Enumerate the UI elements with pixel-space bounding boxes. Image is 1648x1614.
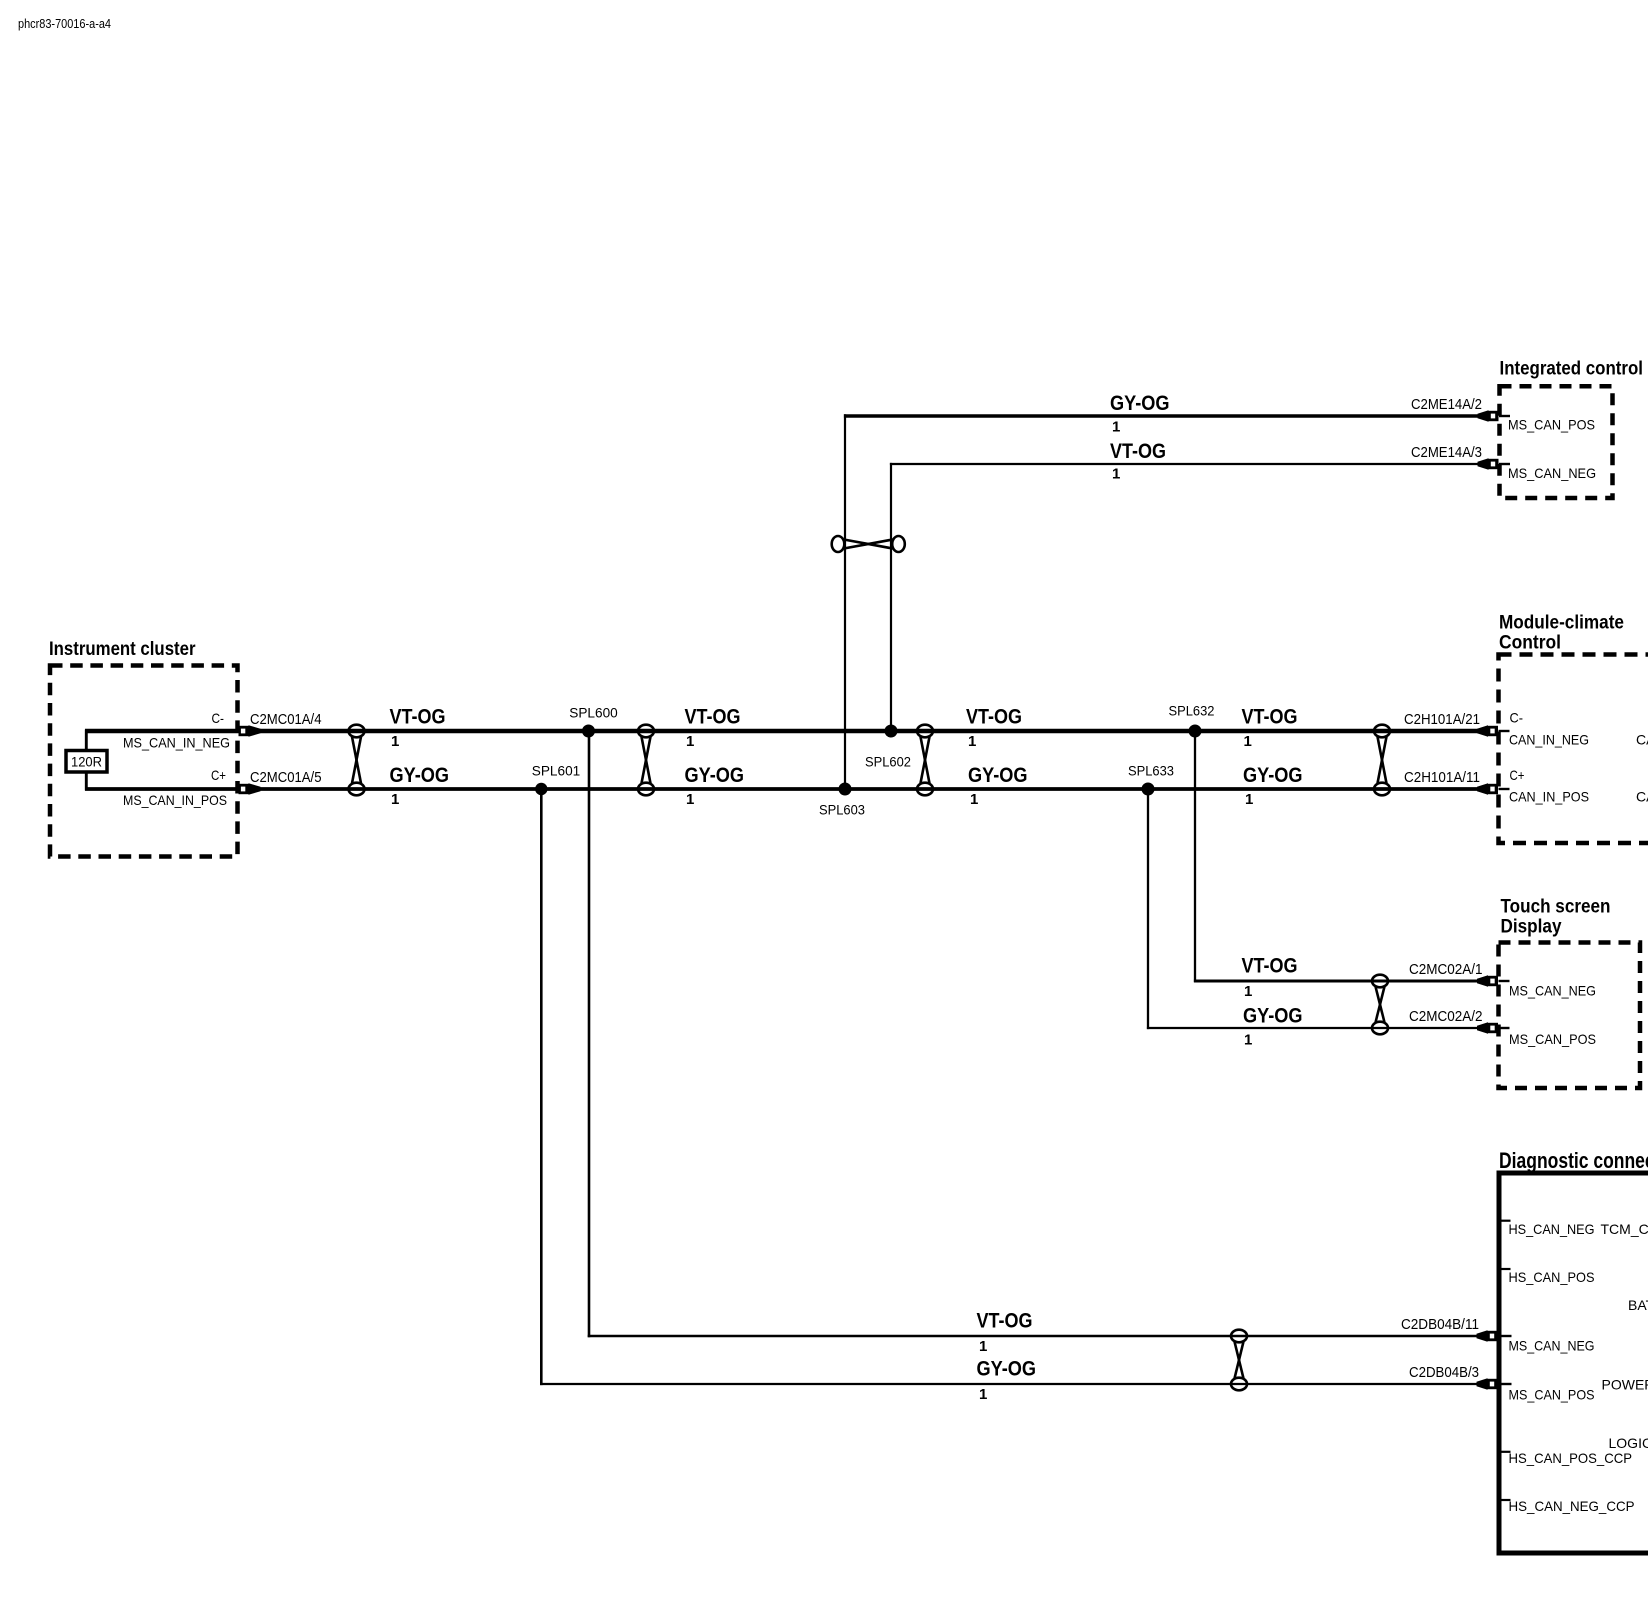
wire GY-OG vertical from SPL633 down to touch screen [1147, 789, 1149, 1029]
connector pin C2MC01A/4 [239, 725, 261, 737]
pin stub inside touch screen (MS_CAN_NEG) [1499, 980, 1510, 982]
twisted pair symbol at x356 [349, 725, 365, 796]
svg-text:MS_CAN_NEG: MS_CAN_NEG [1508, 465, 1596, 481]
component: Diagnostic connector solid box [1499, 1173, 1648, 1553]
twisted pair symbol at x1380 (touch screen pair) [1372, 975, 1388, 1035]
svg-text:1: 1 [1112, 466, 1120, 483]
svg-text:HS_CAN_POS_CCP: HS_CAN_POS_CCP [1509, 1450, 1633, 1466]
pin stub inside diagnostic connector (MS_CAN_NEG) [1502, 1335, 1512, 1337]
svg-text:MS_CAN_POS: MS_CAN_POS [1509, 1031, 1596, 1047]
pin tick HS_CAN_POS (diagnostic) [1502, 1268, 1511, 1270]
svg-text:SPL603: SPL603 [819, 802, 865, 818]
wire VT-OG vertical from SPL600 down to diagnostic connector [588, 731, 591, 1337]
svg-text:MS_CAN_IN_POS: MS_CAN_IN_POS [123, 792, 227, 808]
svg-text:C2H101A/11: C2H101A/11 [1404, 769, 1480, 786]
svg-text:GY-OG: GY-OG [390, 763, 450, 787]
wire VT-OG vertical branch from SPL602 up [890, 463, 892, 731]
svg-text:BATT: BATT [1628, 1297, 1648, 1313]
pin stub inside module-climate (C-) [1499, 730, 1510, 732]
svg-text:CA: CA [1636, 732, 1648, 748]
svg-text:C+: C+ [211, 767, 226, 783]
svg-text:MS_CAN_POS: MS_CAN_POS [1508, 417, 1595, 433]
pin stub inside diagnostic connector (MS_CAN_POS) [1502, 1383, 1512, 1385]
svg-text:Instrument cluster: Instrument cluster [49, 639, 196, 660]
svg-text:HS_CAN_POS: HS_CAN_POS [1509, 1269, 1595, 1285]
svg-text:GY-OG: GY-OG [1243, 1004, 1303, 1028]
svg-text:1: 1 [1244, 1032, 1252, 1049]
connector pin C2ME14A/2 [1478, 410, 1499, 422]
svg-text:GY-OG: GY-OG [1110, 391, 1170, 415]
svg-text:MS_CAN_NEG: MS_CAN_NEG [1509, 983, 1596, 999]
svg-text:1: 1 [968, 733, 976, 750]
splice SPL603 [839, 783, 852, 796]
svg-text:HS_CAN_NEG: HS_CAN_NEG [1509, 1221, 1595, 1237]
svg-text:C-: C- [1510, 710, 1524, 726]
svg-text:GY-OG: GY-OG [1243, 763, 1303, 787]
svg-text:C2DB04B/3: C2DB04B/3 [1409, 1364, 1479, 1381]
svg-text:Touch screen: Touch screen [1501, 897, 1611, 918]
twisted pair symbol at x1239 (diagnostic pair) [1231, 1330, 1247, 1391]
twisted pair symbol (horizontal) on branch pair [832, 536, 905, 552]
pin stub inside module-climate (C+) [1499, 788, 1510, 790]
svg-text:VT-OG: VT-OG [1110, 439, 1166, 463]
svg-text:GY-OG: GY-OG [977, 1357, 1037, 1381]
svg-text:1: 1 [686, 733, 694, 750]
svg-text:TCM_CA: TCM_CA [1601, 1221, 1648, 1237]
twisted pair symbol at x925 [917, 725, 933, 796]
connector pin C2DB04B/11 [1477, 1330, 1498, 1342]
wire GY-OG main bus (bottom) [85, 787, 1478, 791]
svg-text:GY-OG: GY-OG [968, 763, 1028, 787]
connector pin C2DB04B/3 [1477, 1378, 1498, 1390]
splice SPL632 [1189, 725, 1202, 738]
svg-text:C2MC02A/1: C2MC02A/1 [1409, 961, 1483, 978]
svg-text:1: 1 [391, 791, 399, 808]
svg-text:VT-OG: VT-OG [685, 705, 741, 729]
svg-text:1: 1 [1112, 419, 1120, 436]
wire VT-OG vertical from SPL632 down to touch screen [1194, 731, 1196, 982]
wire VT-OG horizontal to touch screen [1194, 980, 1478, 983]
pin stub inside touch screen (MS_CAN_POS) [1499, 1027, 1510, 1029]
svg-text:VT-OG: VT-OG [977, 1309, 1033, 1333]
svg-text:MS_CAN_IN_NEG: MS_CAN_IN_NEG [123, 735, 230, 751]
wire GY-OG vertical branch from SPL603 up [844, 414, 846, 789]
pin stub inside integrated control (MS_CAN_NEG) [1499, 463, 1510, 465]
svg-text:SPL632: SPL632 [1169, 703, 1215, 719]
svg-text:Module-climate: Module-climate [1499, 613, 1624, 634]
svg-text:SPL633: SPL633 [1128, 763, 1174, 779]
twisted pair symbol at x1382 [1374, 725, 1390, 796]
svg-text:1: 1 [391, 733, 399, 750]
wire jumper from 120R to MS_CAN_IN_NEG [85, 730, 88, 751]
splice SPL601 [535, 783, 547, 795]
svg-text:Integrated control: Integrated control [1500, 359, 1644, 380]
svg-text:C-: C- [212, 710, 225, 726]
component: Instrument cluster dashed box [50, 666, 238, 857]
svg-text:C2MC02A/2: C2MC02A/2 [1409, 1008, 1483, 1025]
svg-text:1: 1 [970, 791, 978, 808]
svg-text:Control: Control [1499, 633, 1561, 654]
splice SPL600 [582, 725, 595, 738]
wire VT-OG horizontal to Integrated control [890, 463, 1478, 465]
wire GY-OG horizontal to Integrated control [844, 414, 1478, 418]
svg-text:1: 1 [1244, 983, 1252, 1000]
svg-text:SPL602: SPL602 [865, 754, 911, 770]
svg-text:1: 1 [979, 1338, 987, 1355]
twisted pair symbol at x646 [638, 725, 654, 796]
pin tick HS_CAN_NEG_CCP (diagnostic) [1502, 1499, 1511, 1501]
svg-text:VT-OG: VT-OG [966, 705, 1022, 729]
svg-text:VT-OG: VT-OG [1242, 954, 1298, 978]
pin tick HS_CAN_POS_CCP (diagnostic) [1502, 1451, 1511, 1453]
connector pin C2ME14A/3 [1478, 458, 1499, 470]
svg-text:POWER: POWER [1602, 1377, 1648, 1393]
resistor 120R body [66, 751, 107, 773]
svg-text:C2MC01A/4: C2MC01A/4 [250, 711, 322, 728]
connector pin C2MC02A/1 [1477, 975, 1498, 987]
pin stub inside integrated control (MS_CAN_POS) [1499, 415, 1510, 417]
component: Touch screen Display dashed box [1499, 943, 1641, 1089]
svg-text:1: 1 [1244, 733, 1252, 750]
wire jumper from 120R to MS_CAN_IN_POS [85, 772, 88, 791]
svg-text:1: 1 [686, 791, 694, 808]
svg-text:VT-OG: VT-OG [1242, 705, 1298, 729]
wire GY-OG horizontal to diagnostic connector [540, 1383, 1478, 1385]
svg-text:HS_CAN_NEG_CCP: HS_CAN_NEG_CCP [1509, 1498, 1635, 1514]
connector pin C2MC02A/2 [1477, 1022, 1498, 1034]
svg-text:VT-OG: VT-OG [390, 705, 446, 729]
svg-text:Display: Display [1501, 917, 1562, 938]
svg-text:C+: C+ [1510, 767, 1525, 783]
svg-text:CAN_IN_NEG: CAN_IN_NEG [1509, 732, 1589, 748]
wire VT-OG horizontal to diagnostic connector [588, 1335, 1478, 1337]
svg-text:MS_CAN_POS: MS_CAN_POS [1509, 1387, 1595, 1403]
component: Integrated control dashed box [1500, 386, 1613, 498]
splice SPL602 [885, 725, 898, 738]
svg-text:C2ME14A/2: C2ME14A/2 [1411, 396, 1482, 413]
wire VT-OG main bus (top) [85, 729, 1478, 733]
wire GY-OG vertical from SPL601 down to diagnostic connector [540, 789, 543, 1385]
svg-text:Diagnostic connector: Diagnostic connector [1499, 1148, 1648, 1173]
svg-text:C2ME14A/3: C2ME14A/3 [1411, 444, 1482, 461]
connector pin C2H101A/11 [1477, 783, 1498, 795]
svg-text:MS_CAN_NEG: MS_CAN_NEG [1509, 1338, 1595, 1354]
svg-text:GY-OG: GY-OG [685, 763, 745, 787]
svg-text:phcr83-70016-a-a4: phcr83-70016-a-a4 [18, 17, 111, 31]
svg-text:LOGIC: LOGIC [1609, 1435, 1648, 1451]
wire GY-OG horizontal to touch screen [1147, 1027, 1478, 1029]
svg-text:C2DB04B/11: C2DB04B/11 [1401, 1316, 1479, 1333]
svg-text:1: 1 [1245, 791, 1253, 808]
connector pin C2MC01A/5 [239, 783, 261, 795]
svg-text:1: 1 [979, 1386, 987, 1403]
svg-text:SPL600: SPL600 [569, 705, 618, 721]
svg-text:C2H101A/21: C2H101A/21 [1404, 711, 1480, 728]
svg-text:CA: CA [1636, 789, 1648, 805]
svg-text:120R: 120R [71, 754, 102, 770]
pin tick HS_CAN_NEG (diagnostic) [1502, 1220, 1511, 1222]
svg-text:SPL601: SPL601 [532, 763, 581, 779]
svg-text:C2MC01A/5: C2MC01A/5 [250, 769, 322, 786]
splice SPL633 [1142, 783, 1155, 796]
component: Module-climate Control dashed box [1499, 655, 1648, 844]
connector pin C2H101A/21 [1477, 725, 1498, 737]
svg-text:CAN_IN_POS: CAN_IN_POS [1509, 789, 1589, 805]
